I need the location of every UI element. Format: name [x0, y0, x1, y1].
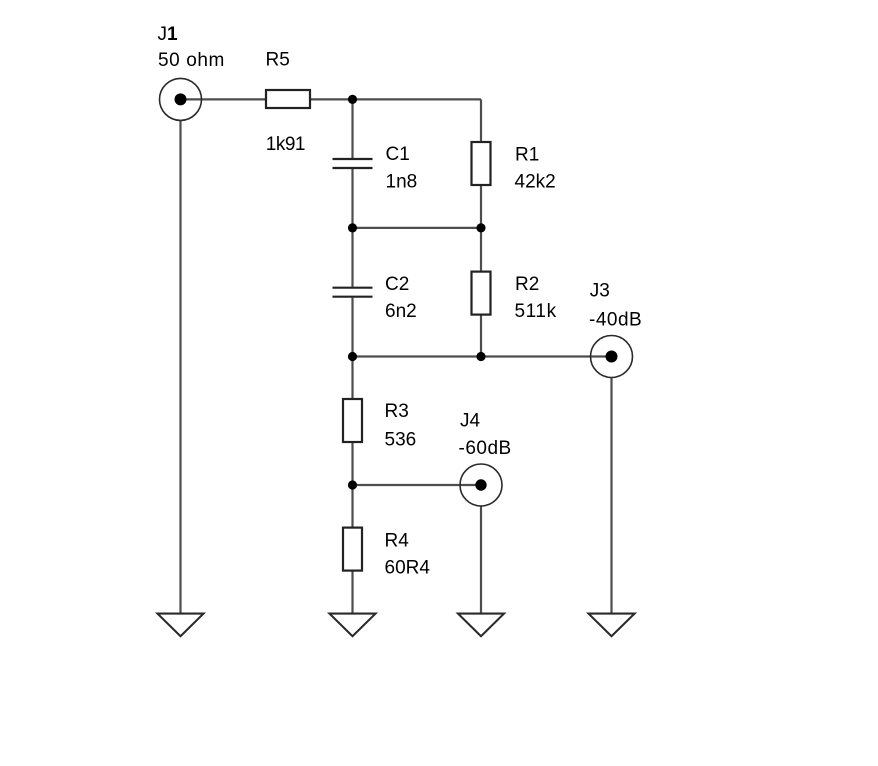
- capacitor C2: [333, 288, 373, 297]
- ground under J4: [458, 614, 504, 637]
- wire R4 to ground: [351, 571, 353, 614]
- wire J1 to ground: [179, 120, 181, 613]
- svg-text:60R4: 60R4: [385, 558, 431, 579]
- wire C1 to node B: [351, 169, 353, 228]
- connector J1: [160, 78, 202, 120]
- wire top right down to R1: [480, 99, 482, 142]
- svg-text:6n2: 6n2: [385, 301, 417, 322]
- svg-text:C2: C2: [385, 274, 409, 295]
- wire J4 to ground: [480, 506, 482, 614]
- capacitor C1: [333, 159, 373, 168]
- svg-text:1k91: 1k91: [266, 134, 305, 155]
- resistor R4: [343, 528, 362, 571]
- junction node A: [348, 95, 357, 104]
- wire node B down to R2: [480, 228, 482, 272]
- resistor R2: [472, 272, 491, 315]
- junction node D: [348, 480, 357, 489]
- svg-text:-40dB: -40dB: [589, 310, 642, 331]
- junction node B left: [348, 223, 357, 232]
- wire R2 to node C: [480, 315, 482, 357]
- resistor R1: [472, 142, 491, 185]
- wire node C rail to J3: [353, 355, 612, 357]
- svg-text:J3: J3: [590, 281, 610, 302]
- junction node B right: [476, 223, 485, 232]
- svg-text:J1: J1: [158, 24, 179, 45]
- svg-text:R4: R4: [385, 531, 410, 552]
- wire node C down to R3: [351, 357, 353, 400]
- svg-text:42k2: 42k2: [515, 171, 556, 192]
- svg-text:C1: C1: [386, 144, 410, 165]
- junction node C left: [348, 352, 357, 361]
- wire R3 to node D: [351, 442, 353, 485]
- connector J3: [591, 336, 633, 378]
- svg-text:R5: R5: [266, 50, 290, 71]
- wire node D down to R4: [351, 485, 353, 528]
- wire node D rail to J4: [353, 484, 482, 486]
- wire R5 to node A rail: [310, 98, 481, 100]
- resistor R5: [266, 90, 310, 108]
- svg-text:536: 536: [385, 430, 417, 451]
- wire J3 to ground: [610, 378, 612, 614]
- svg-text:R1: R1: [515, 144, 539, 165]
- svg-text:J4: J4: [460, 411, 481, 432]
- wire node B rail: [353, 227, 482, 229]
- svg-text:-60dB: -60dB: [459, 438, 512, 459]
- svg-text:R3: R3: [385, 401, 409, 422]
- wire node B down to C2: [351, 228, 353, 287]
- wire R1 to node B rail: [480, 185, 482, 228]
- svg-text:50 ohm: 50 ohm: [158, 50, 225, 71]
- ground under J1: [158, 614, 204, 637]
- wire C2 to node C: [351, 298, 353, 357]
- connector J4: [460, 464, 502, 506]
- ground under R4: [330, 614, 376, 637]
- svg-text:1n8: 1n8: [386, 172, 418, 193]
- wire J1 to R5: [181, 98, 267, 100]
- resistor R3: [343, 399, 362, 442]
- svg-text:511k: 511k: [515, 301, 557, 322]
- wire node A down to C1: [351, 99, 353, 158]
- ground under J3: [589, 614, 635, 637]
- svg-text:R2: R2: [515, 274, 539, 295]
- junction node C right: [476, 352, 485, 361]
